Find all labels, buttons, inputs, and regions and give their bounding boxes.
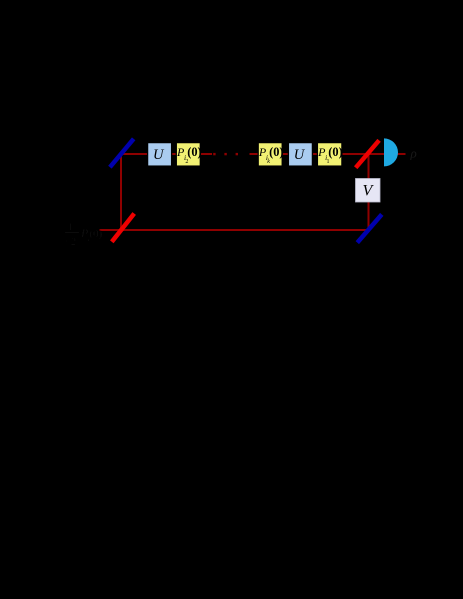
wire: left vertical beam [120, 153, 122, 231]
svg-text:U: U [294, 147, 306, 163]
wire: dotted continuation (ellipsis dots) [213, 153, 215, 155]
svg-text:1: 1 [68, 222, 73, 232]
svg-text:(0): (0) [269, 145, 283, 159]
detector D1 [384, 138, 398, 166]
box P_i2(0) [176, 143, 200, 167]
mirror top-left [110, 139, 134, 167]
svg-text:U: U [153, 147, 165, 163]
svg-text:(0): (0) [187, 145, 201, 159]
svg-text:(0): (0) [328, 145, 342, 159]
svg-text:1: 1 [327, 159, 330, 165]
svg-text:ρ: ρ [410, 146, 417, 161]
mirror bottom-right [357, 214, 382, 242]
node input state label (very dark) [65, 222, 103, 248]
wire: bottom horizontal beam [100, 229, 370, 231]
beam splitter left [112, 214, 134, 242]
box V [356, 179, 381, 203]
svg-text:k: k [267, 159, 270, 165]
svg-text:(0): (0) [90, 228, 103, 240]
svg-text:1: 1 [89, 241, 92, 248]
box P_i1(0) [317, 143, 342, 167]
svg-text:√2: √2 [66, 237, 77, 248]
wire: right vertical beam [368, 154, 370, 231]
box U1 [148, 143, 172, 167]
wire: top horizontal beam left part [121, 153, 212, 155]
box U2 [288, 143, 312, 167]
svg-text:2: 2 [185, 159, 188, 165]
beam splitter right [356, 140, 379, 167]
wire: top horizontal beam right part [250, 153, 406, 155]
box P_ik(0) [258, 143, 282, 167]
